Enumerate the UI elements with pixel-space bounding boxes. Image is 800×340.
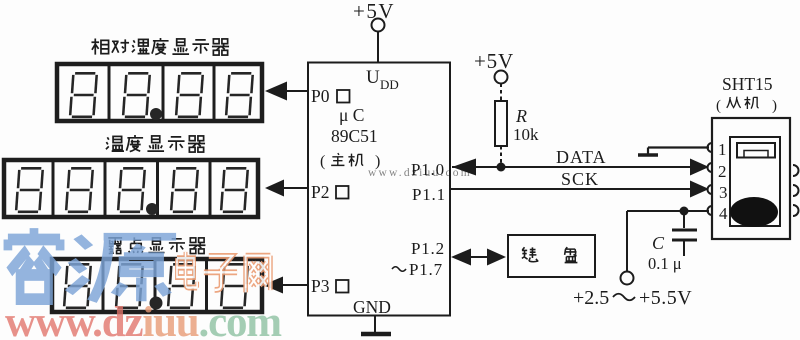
svg-text:DD: DD <box>380 77 399 92</box>
svg-text:www.dziuu.com: www.dziuu.com <box>5 299 282 340</box>
svg-text:SHT15: SHT15 <box>722 74 773 94</box>
svg-text:R: R <box>515 106 527 126</box>
svg-text:GND: GND <box>353 297 391 317</box>
svg-text:3: 3 <box>719 183 728 202</box>
svg-text:10k: 10k <box>513 125 539 144</box>
svg-text:): ) <box>772 98 777 114</box>
svg-text:P3: P3 <box>311 276 330 296</box>
svg-text:(: ( <box>716 98 721 114</box>
svg-text:SCK: SCK <box>561 169 599 189</box>
svg-text:U: U <box>366 67 380 88</box>
svg-text:0.1 μ: 0.1 μ <box>648 254 682 273</box>
svg-text:www.dziuu.com: www.dziuu.com <box>368 167 472 179</box>
svg-text:2: 2 <box>718 162 727 181</box>
svg-text:(: ( <box>320 153 325 170</box>
svg-text:DATA: DATA <box>556 147 607 167</box>
svg-text:P1.7: P1.7 <box>409 260 443 279</box>
svg-text:P2: P2 <box>311 182 329 202</box>
svg-text:P1.1: P1.1 <box>412 185 446 204</box>
svg-text:+2.5: +2.5 <box>573 287 609 309</box>
svg-text:89C51: 89C51 <box>331 126 378 146</box>
svg-text:μ C: μ C <box>339 105 364 125</box>
svg-text:4: 4 <box>719 204 728 223</box>
svg-text:1: 1 <box>718 140 727 159</box>
svg-text:+5V: +5V <box>474 49 514 73</box>
svg-text:C: C <box>652 233 665 253</box>
svg-text:P1.2: P1.2 <box>411 239 445 258</box>
svg-text:P0: P0 <box>311 86 330 106</box>
svg-text:+5.5V: +5.5V <box>639 287 692 309</box>
